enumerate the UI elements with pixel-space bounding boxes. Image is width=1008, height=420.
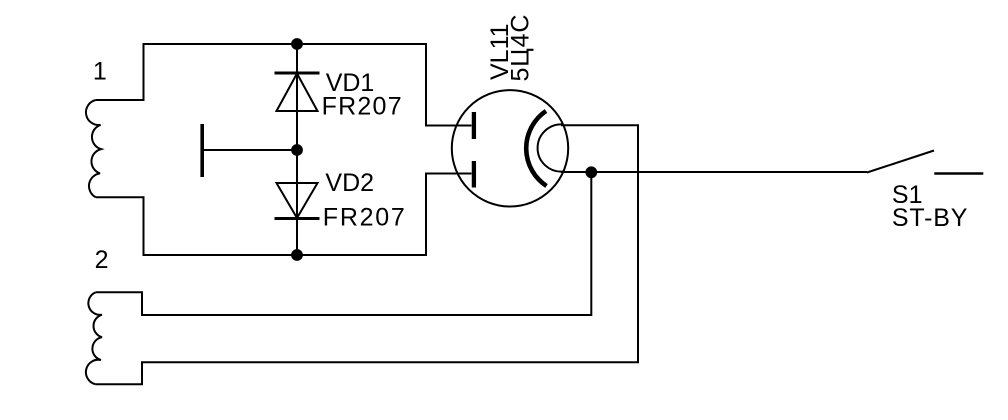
svg-text:1: 1 (93, 57, 107, 85)
svg-text:ST-BY: ST-BY (892, 204, 968, 232)
svg-text:2: 2 (95, 246, 109, 274)
svg-text:FR207: FR207 (322, 93, 402, 121)
svg-text:VD2: VD2 (325, 169, 374, 197)
svg-text:5Ц4С: 5Ц4С (507, 15, 535, 82)
svg-text:FR207: FR207 (323, 203, 405, 231)
